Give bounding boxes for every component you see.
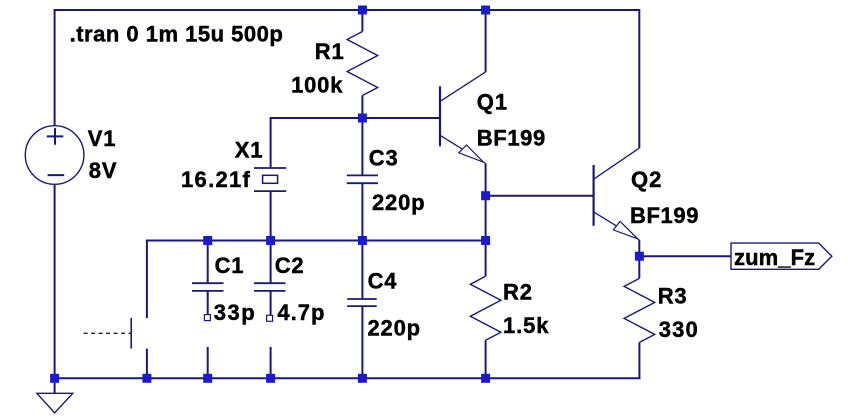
svg-text:220p: 220p: [368, 316, 421, 341]
svg-text:Q2: Q2: [631, 167, 662, 192]
svg-text:.tran 0 1m 15u 500p: .tran 0 1m 15u 500p: [70, 22, 284, 47]
svg-text:330: 330: [659, 317, 699, 342]
svg-text:R3: R3: [658, 283, 688, 308]
svg-text:V1: V1: [88, 126, 117, 151]
svg-text:Q1: Q1: [477, 90, 508, 115]
svg-text:BF199: BF199: [630, 203, 699, 228]
svg-text:R2: R2: [503, 280, 533, 305]
svg-text:C1: C1: [215, 253, 245, 278]
svg-text:8V: 8V: [89, 158, 118, 183]
svg-text:16.21f: 16.21f: [181, 167, 251, 192]
svg-text:zum_Fz: zum_Fz: [734, 245, 815, 270]
svg-text:X1: X1: [235, 137, 264, 162]
svg-text:220p: 220p: [372, 190, 425, 215]
svg-text:BF199: BF199: [477, 125, 546, 150]
svg-text:R1: R1: [315, 39, 345, 64]
svg-text:33p: 33p: [214, 300, 256, 325]
svg-text:100k: 100k: [291, 72, 343, 97]
svg-text:1.5k: 1.5k: [503, 313, 549, 338]
svg-text:4.7p: 4.7p: [277, 300, 325, 325]
svg-text:C3: C3: [369, 146, 399, 171]
svg-text:C4: C4: [368, 269, 398, 294]
svg-text:C2: C2: [275, 253, 305, 278]
